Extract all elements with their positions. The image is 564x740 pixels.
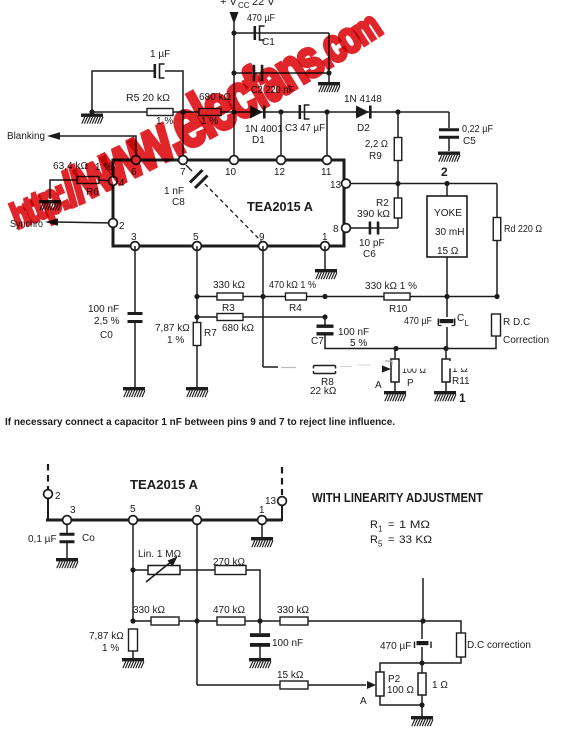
svg-text:2: 2 <box>55 491 61 502</box>
svg-text:10: 10 <box>225 167 237 178</box>
svg-text:5 %: 5 % <box>350 338 367 349</box>
svg-text:If necessary connect a capacit: If necessary connect a capacitor 1 nF be… <box>5 416 395 428</box>
svg-text:13: 13 <box>265 496 277 507</box>
svg-text:R D.C: R D.C <box>503 317 530 328</box>
svg-text:100 nF: 100 nF <box>338 327 369 338</box>
svg-text:=: = <box>388 534 394 546</box>
svg-text:100 nF: 100 nF <box>88 304 119 315</box>
svg-text:330 kΩ: 330 kΩ <box>133 605 165 616</box>
svg-text:R3: R3 <box>222 303 235 314</box>
svg-text:R: R <box>370 534 378 546</box>
svg-text:33 KΩ: 33 KΩ <box>399 534 432 546</box>
svg-text:TEA2015 A: TEA2015 A <box>247 199 314 214</box>
svg-text:R11: R11 <box>452 376 470 387</box>
svg-text:1: 1 <box>322 232 328 243</box>
svg-text:C6: C6 <box>363 249 376 260</box>
svg-text:3: 3 <box>131 232 137 243</box>
svg-text:TEA2015 A: TEA2015 A <box>130 477 199 492</box>
svg-text:R4: R4 <box>289 303 302 314</box>
svg-text:D1: D1 <box>252 135 265 146</box>
svg-text:12: 12 <box>274 167 286 178</box>
svg-text:Co: Co <box>82 533 95 544</box>
svg-text:2: 2 <box>119 221 125 232</box>
svg-text:10 pF: 10 pF <box>359 238 385 249</box>
svg-text:8: 8 <box>333 224 339 235</box>
svg-text:D2: D2 <box>357 123 370 134</box>
svg-text:100 nF: 100 nF <box>272 638 303 649</box>
svg-text:1N 4148: 1N 4148 <box>344 94 382 105</box>
svg-text:5: 5 <box>130 504 136 515</box>
svg-text:470 kΩ 1 %: 470 kΩ 1 % <box>269 280 316 291</box>
svg-text:3: 3 <box>70 505 76 516</box>
svg-text:9: 9 <box>195 504 201 515</box>
svg-text:Lin. 1 MΩ: Lin. 1 MΩ <box>138 549 182 560</box>
svg-text:Rd 220 Ω: Rd 220 Ω <box>504 224 542 235</box>
svg-text:270 kΩ: 270 kΩ <box>213 557 245 568</box>
svg-text:1 Ω: 1 Ω <box>432 680 448 691</box>
svg-text:470 µF: 470 µF <box>380 641 411 652</box>
svg-text:YOKE: YOKE <box>434 208 462 219</box>
svg-text:13: 13 <box>330 180 342 191</box>
svg-text:1 %: 1 % <box>102 643 119 654</box>
svg-text:C8: C8 <box>172 197 185 208</box>
svg-text:C7: C7 <box>311 336 324 347</box>
svg-text:R9: R9 <box>369 151 382 162</box>
svg-text:680 kΩ: 680 kΩ <box>222 323 254 334</box>
svg-text:C0: C0 <box>100 330 113 341</box>
svg-text:5: 5 <box>378 540 383 549</box>
svg-text:5: 5 <box>193 232 199 243</box>
svg-text:15 Ω: 15 Ω <box>437 246 459 257</box>
svg-text:CC: CC <box>238 1 250 10</box>
svg-text:1: 1 <box>259 505 265 516</box>
svg-text:Blanking: Blanking <box>7 131 45 142</box>
svg-text:15 kΩ: 15 kΩ <box>277 670 304 681</box>
svg-text:WITH LINEARITY ADJUSTMENT: WITH LINEARITY ADJUSTMENT <box>312 491 483 505</box>
svg-text:470 µF: 470 µF <box>404 316 432 327</box>
svg-text:R: R <box>370 519 378 531</box>
svg-text:330 kΩ: 330 kΩ <box>213 280 245 291</box>
svg-text:22 kΩ: 22 kΩ <box>310 386 337 397</box>
svg-text:470 kΩ: 470 kΩ <box>213 605 245 616</box>
svg-text:1 µF: 1 µF <box>150 49 170 60</box>
svg-text:+ V: + V <box>220 0 237 8</box>
svg-text:0,1 µF: 0,1 µF <box>28 534 57 545</box>
svg-text:A: A <box>360 696 367 707</box>
svg-text:R2: R2 <box>376 198 389 209</box>
svg-text:1: 1 <box>459 391 466 405</box>
svg-text:330 kΩ: 330 kΩ <box>277 605 309 616</box>
svg-text:1 MΩ: 1 MΩ <box>399 519 430 531</box>
svg-text:1 nF: 1 nF <box>164 186 184 197</box>
svg-text:2,5 %: 2,5 % <box>94 316 120 327</box>
svg-text:1: 1 <box>378 525 383 534</box>
svg-text:R10: R10 <box>389 304 408 315</box>
svg-text:1 %: 1 % <box>167 335 184 346</box>
svg-text:100 Ω: 100 Ω <box>387 685 414 696</box>
svg-text:390 kΩ: 390 kΩ <box>357 209 391 220</box>
svg-text:2: 2 <box>441 165 448 179</box>
svg-text:D.C correction: D.C correction <box>467 640 531 651</box>
svg-text:9: 9 <box>259 232 265 243</box>
svg-text:2,2 Ω: 2,2 Ω <box>365 139 388 150</box>
svg-text:Correction: Correction <box>503 335 549 346</box>
svg-text:L: L <box>465 319 470 328</box>
svg-text:470 µF: 470 µF <box>247 13 275 24</box>
svg-text:A: A <box>375 380 382 391</box>
svg-text:30 mH: 30 mH <box>435 227 464 238</box>
svg-text:C3 47 µF: C3 47 µF <box>285 123 325 134</box>
svg-text:C: C <box>457 313 464 324</box>
svg-text:P2: P2 <box>388 674 401 685</box>
svg-text:11: 11 <box>321 167 332 178</box>
svg-text:C5: C5 <box>463 136 476 147</box>
svg-text:=: = <box>388 519 394 531</box>
svg-text:R7: R7 <box>204 328 217 339</box>
svg-text:330 kΩ 1 %: 330 kΩ 1 % <box>365 281 417 292</box>
svg-text:7,87 kΩ: 7,87 kΩ <box>155 323 190 334</box>
svg-text:0,22 µF: 0,22 µF <box>462 124 493 135</box>
svg-text:P: P <box>407 378 414 389</box>
svg-text:7,87 kΩ: 7,87 kΩ <box>89 631 124 642</box>
svg-text:22 V: 22 V <box>252 0 275 8</box>
